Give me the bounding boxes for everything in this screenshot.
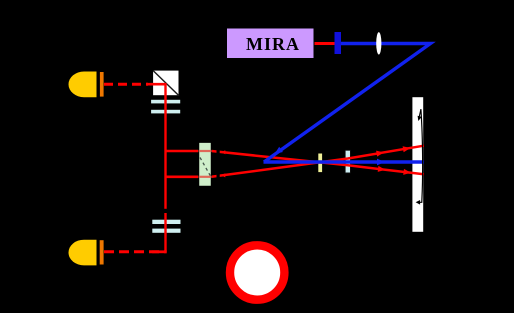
red beam B ascending	[212, 146, 424, 177]
waveplate pair lower	[152, 219, 181, 233]
arrow blue horizontal	[377, 159, 385, 166]
wire red vertical main	[164, 84, 166, 252]
waveplate pair upper	[151, 99, 181, 113]
laser head MIRA	[226, 28, 315, 60]
detector D2 (photodiode)	[68, 240, 103, 266]
scan arrow (black curve on mirror)	[416, 109, 423, 204]
detector D1 (photodiode)	[69, 72, 104, 98]
beam sampler (green rect)	[199, 142, 212, 186]
wire red stub upper to splitter	[166, 150, 212, 153]
relay lens (cyan bar)	[345, 150, 350, 173]
wire red dashed from detector D2	[104, 250, 167, 253]
scan mirror (white bar)	[412, 97, 423, 232]
wire red stub lower to splitter	[166, 176, 212, 179]
arrow small left on beam B	[221, 173, 225, 177]
gap mark on vertical wire	[164, 209, 168, 213]
wire red dashed from detector D1	[104, 83, 148, 86]
red beam crossing green rect	[199, 150, 212, 152]
svg-text:MIRA: MIRA	[246, 34, 300, 54]
wire red laser output	[315, 42, 336, 45]
arrow beam A at mirror	[403, 169, 411, 175]
beam splitter cube PBS	[152, 70, 179, 96]
blue beam horizontal to scan mirror	[264, 160, 424, 164]
wire red solid into PBS	[146, 83, 167, 86]
arrow beam A mid	[378, 166, 386, 172]
arrow small left on beam A	[221, 150, 225, 154]
arrow beam B at mirror	[403, 146, 411, 152]
pinhole (yellow bar)	[318, 154, 322, 173]
gap marks on beams	[217, 149, 220, 153]
arrow blue on diagonal	[275, 147, 283, 154]
red beam A descending	[212, 151, 424, 174]
objective aperture (red ring)	[230, 245, 284, 299]
collimating lens (white ellipse)	[376, 32, 381, 54]
wire red solid elbow at D2 corner	[152, 250, 167, 253]
arrow beam B mid	[376, 151, 384, 157]
isolator (blue bar)	[335, 32, 342, 54]
blue beam to fold mirror	[264, 44, 431, 163]
